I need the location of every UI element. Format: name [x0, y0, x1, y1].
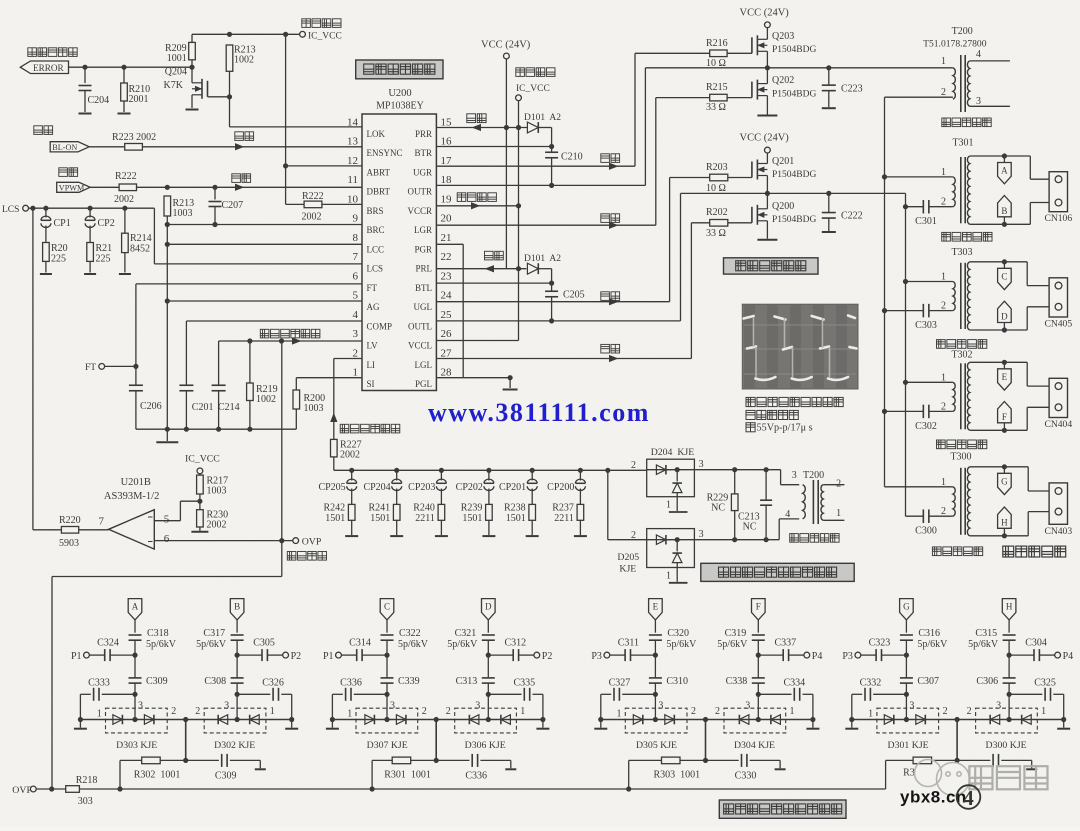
dual diode D300 KJE [976, 708, 1038, 733]
dual diode D305 KJE [625, 708, 687, 733]
terminal P4 / capacitor C337 [756, 653, 761, 658]
capacitor C213 NC [765, 470, 767, 500]
pin1 D205 [676, 568, 678, 582]
wire D204 pin3 row [694, 469, 780, 471]
capacitor CP205 [351, 470, 353, 480]
IC_VCC rail [518, 101, 520, 341]
terminal P4 / capacitor C304 [1007, 653, 1012, 658]
capacitor C313 [482, 677, 495, 679]
terminal OVP (voltage detect) [293, 538, 299, 544]
node E lamp wire [649, 599, 663, 620]
capacitor CP2 / resistor R21 225 [89, 208, 91, 217]
wire pin20 LGR to R215 [436, 224, 655, 226]
transistor Q202 P1504BDG [751, 82, 753, 98]
resistor R304 1001 (behind logo) [913, 757, 932, 764]
wire pin1 SI to R200 [296, 377, 362, 379]
dual diode D301 KJE [877, 708, 939, 733]
transistor Q203 P1504BDG [751, 37, 753, 53]
capacitor C330 [706, 759, 739, 761]
terminal P1 / capacitor C324 [132, 653, 137, 658]
wire BL-ON to IC pin13 [142, 146, 362, 148]
capacitor C321 5p/6kV [482, 634, 495, 636]
capacitor CP201 [531, 470, 533, 480]
transformer T303 core [960, 263, 962, 329]
resistor R217 1003 [199, 474, 201, 475]
resistor R242 1501 [348, 504, 355, 520]
node C lamp wire [380, 599, 394, 620]
ground Q200 source [766, 221, 768, 239]
wire pin15 supply row [436, 127, 528, 129]
wire F to diode junction [757, 694, 759, 719]
capacitor C222 [828, 193, 830, 212]
capacitor C333 [132, 692, 137, 697]
capacitor C315 5p/6kV [1003, 634, 1016, 636]
resistor R241 1501 [393, 504, 400, 520]
node H lamp output [998, 507, 1012, 528]
terminal IC_VCC top-left [300, 31, 306, 37]
logo publisher [915, 760, 970, 796]
capacitor C302 [922, 405, 924, 419]
resistor R200 1003 [293, 390, 300, 409]
wire pin16 row [436, 146, 551, 148]
wire Q204 gate to IC pin14 [229, 97, 231, 127]
wire brightness divider to IC pin9 [166, 216, 168, 225]
capacitor C310 [649, 677, 662, 679]
wire FT row [105, 365, 136, 367]
wire bridge node row 2 [766, 176, 768, 194]
resistor R210 2001 [123, 67, 125, 83]
photo caption [746, 397, 843, 406]
wire D305 KJE/D304 KJE junction down [705, 720, 707, 761]
resistor R303 1001 [662, 757, 681, 764]
capacitor C327 [653, 692, 658, 697]
capacitor C339 [381, 677, 394, 679]
terminal P3 / capacitor C323 [904, 653, 909, 658]
wire H to diode junction [1008, 694, 1010, 719]
capacitor C308 [231, 677, 244, 679]
capacitor CP1 / resistor R20 225 [45, 208, 47, 217]
node B lamp output [998, 196, 1012, 217]
ground rail left of IC (pins 9/8/5) [166, 225, 168, 430]
resistor R223 2002 [89, 146, 124, 148]
transformer T300 secondary [967, 467, 969, 536]
title box output-voltage detect protection [719, 800, 846, 818]
capacitor C336 [384, 692, 389, 697]
ground Q202 source [766, 96, 768, 115]
connector CN403 [1027, 467, 1029, 491]
wire B to diode junction [236, 694, 238, 719]
capacitor C207 [214, 187, 216, 199]
photo inset waveform [742, 304, 858, 389]
resistor R222 2002 (pin10) [286, 203, 305, 205]
node D lamp wire [482, 599, 496, 620]
capacitor C336 [436, 759, 469, 761]
capacitor CP203 [440, 470, 442, 480]
logo circled 4 [957, 785, 981, 809]
wire pin26 VCCL from IC_VCC rail [436, 340, 518, 342]
capacitor C223 [828, 68, 830, 85]
wire G to diode junction [905, 694, 907, 719]
wire A to diode junction [134, 694, 136, 719]
capacitor C320 5p/6kV [649, 634, 662, 636]
wire LCS to comparator R220 [32, 208, 34, 530]
dual diode D306 KJE [455, 708, 517, 733]
resistor R227 2002 [331, 439, 338, 457]
transformer T301 secondary [967, 156, 969, 224]
transistor Q204 K7K [207, 81, 209, 97]
wire IC_VCC rail left to pin12 [285, 34, 287, 204]
wire pin17 UGR to R216 [436, 165, 635, 167]
capacitor C334 [756, 692, 761, 697]
transformer T301 core [960, 157, 962, 223]
wire OVP bus [79, 788, 885, 790]
capacitor C326 [235, 692, 240, 697]
wire pin3 LV row (voltage feedback) [218, 341, 220, 386]
node A lamp output [1003, 156, 1005, 163]
wire pin4 COMP from C201 [185, 321, 187, 386]
wire pin27 LGL to R202 [436, 358, 691, 360]
transformer T303 secondary [967, 262, 969, 330]
resistor R218 303 [36, 788, 65, 790]
capacitor C329 [957, 759, 990, 761]
connector CN106 [1029, 156, 1031, 179]
net label BL-ON [34, 126, 53, 135]
wire current-feedback bus [334, 469, 647, 471]
resistor R302 1001 [142, 757, 161, 764]
capacitor C214 [212, 384, 226, 386]
node H lamp wire [1002, 599, 1016, 620]
capacitor C319 5p/6kV [752, 634, 765, 636]
capacitor C317 5p/6kV [231, 634, 244, 636]
terminal P2 / capacitor C312 [486, 653, 491, 658]
resistor R219 1002 [249, 341, 251, 383]
wire to IC_VCC terminal (top) [192, 33, 299, 35]
net label ERROR (lamp fault detect output) [28, 48, 77, 57]
resistor R209 1001 [191, 34, 193, 42]
wire LCS row [29, 207, 155, 209]
capacitor C306 [1003, 677, 1016, 679]
wire node2 to rail B [905, 193, 907, 516]
capacitor C332 [904, 692, 909, 697]
terminal P1 / capacitor C314 [384, 653, 389, 658]
node G lamp wire [900, 599, 914, 620]
wire to IC pin5 [167, 300, 362, 302]
node A lamp wire [128, 599, 142, 620]
wire D303 KJE/D302 KJE junction down [185, 720, 187, 761]
capacitor CP202 [488, 470, 490, 480]
dual diode D302 KJE [204, 708, 266, 733]
resistor R220 5903 [61, 527, 78, 534]
wire pin23 BTL row [436, 282, 551, 284]
connector CN405 [1026, 262, 1028, 286]
transistor Q201 P1504BDG [751, 162, 753, 178]
wire pin28 PGL ground [463, 377, 510, 379]
node F lamp output [998, 402, 1012, 423]
wire pin19 VCCR reference [436, 205, 518, 207]
analog ground bus [136, 428, 296, 430]
wire pin21 PGR to pin28 [436, 243, 463, 245]
wire pin18 OUTR to bridge node [436, 184, 645, 186]
wire pin6 input from OVP [154, 540, 292, 542]
capacitor C309 [186, 759, 219, 761]
transformer T302 core [960, 363, 962, 429]
wire D301 KJE/D300 KJE junction down [956, 720, 958, 761]
capacitor C201 [179, 384, 193, 386]
resistor R239 1501 [486, 504, 493, 520]
capacitor C338 [752, 677, 765, 679]
wire D205 pin3 row [694, 539, 779, 541]
ground AGND [166, 429, 168, 441]
net label VPWM (brightness) [59, 168, 78, 177]
node E lamp output [1003, 362, 1005, 369]
wire pin24 UGL to R203 [436, 301, 669, 303]
transformer T300 core [960, 468, 962, 535]
wire VPWM to IC pin11 [137, 186, 363, 188]
capacitor C309 [129, 677, 142, 679]
VCC24 rail [505, 59, 507, 269]
capacitor C301 [922, 200, 924, 214]
resistor R237 2211 [577, 504, 584, 520]
dual diode D307 KJE [356, 708, 418, 733]
wire T200 pin2 to rail A [885, 96, 953, 98]
capacitor C325 [1007, 692, 1012, 697]
resistor R222 2002 [90, 186, 119, 188]
resistor R230 2002 [197, 510, 204, 527]
capacitor CP200 [579, 470, 581, 480]
wire OVP to bottom bus [281, 541, 283, 577]
dual diode D304 KJE [724, 708, 786, 733]
dual diode D303 KJE [106, 708, 168, 733]
resistor R214 8452 [124, 208, 126, 233]
terminal P3 / capacitor C311 [653, 653, 658, 658]
resistor R229 NC [734, 470, 736, 494]
resistor R240 2211 [438, 504, 445, 520]
wire pin6 FT riser [135, 284, 137, 367]
resistor R213 1002 [226, 45, 233, 71]
capacitor C316 5p/6kV [900, 634, 913, 636]
wire ERROR row [69, 66, 193, 68]
title box drive-control circuit [356, 60, 443, 79]
wire pin22 PRL supply [436, 268, 526, 270]
op-amp U200 MP1038EY (controller IC body) [362, 114, 436, 391]
wire OVP riser to pin3 LV [281, 341, 283, 541]
terminal IC_VCC (right) [516, 68, 555, 77]
transformer T302 secondary [967, 362, 969, 430]
capacitor C322 5p/6kV [381, 634, 394, 636]
capacitor C205 [545, 290, 558, 292]
resistor R301 1001 [392, 757, 411, 764]
wire to D205 [607, 470, 609, 539]
wire D to diode junction [487, 694, 489, 719]
node B lamp wire [230, 599, 244, 620]
transistor Q200 P1504BDG [751, 207, 753, 223]
capacitor C303 [922, 304, 924, 318]
wire pin5 input [154, 520, 180, 522]
terminal P2 / capacitor C305 [235, 653, 240, 658]
capacitor C307 [900, 677, 913, 679]
resistor R238 1501 [529, 504, 536, 520]
capacitor C318 5p/6kV [129, 634, 142, 636]
wire D307 KJE/D306 KJE junction down [435, 720, 437, 761]
capacitor C206 [135, 366, 137, 385]
title box lamp-current detect protection [701, 563, 854, 581]
connector CN404 [1026, 362, 1028, 386]
wire to IC pin8 [167, 243, 362, 245]
capacitor C204 [84, 67, 86, 83]
node G lamp output [1003, 467, 1005, 474]
pin1 D204 [676, 497, 678, 511]
capacitor CP204 [396, 470, 398, 480]
wire LCS to IC pin7 [153, 208, 155, 264]
capacitor C335 [486, 692, 491, 697]
title box full-bridge drive circuit [724, 258, 819, 274]
node C lamp output [1003, 262, 1005, 269]
resistor R213 1003 [164, 196, 171, 216]
node D lamp output [998, 301, 1012, 322]
wire pin2 LI riser (current feedback) [334, 358, 362, 360]
wire E to diode junction [654, 694, 656, 719]
capacitor C300 [922, 509, 924, 523]
wire bridge node row 1 [766, 51, 768, 68]
node F lamp wire [752, 599, 766, 620]
wire C to diode junction [386, 694, 388, 719]
wire pin25 OUTL to bridge node2 [436, 320, 680, 322]
capacitor C210 [545, 151, 558, 153]
